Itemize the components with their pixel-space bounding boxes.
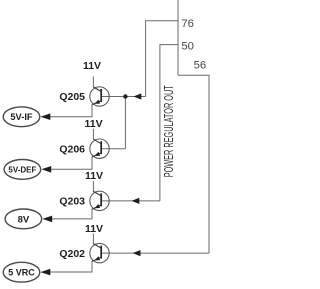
- svg-text:5 VRC: 5 VRC: [8, 268, 35, 278]
- svg-text:56: 56: [194, 60, 207, 72]
- svg-text:Q202: Q202: [59, 248, 85, 260]
- svg-text:11V: 11V: [85, 170, 103, 182]
- svg-text:76: 76: [181, 18, 194, 30]
- svg-text:Q206: Q206: [59, 143, 85, 155]
- svg-text:8V: 8V: [18, 214, 30, 225]
- svg-text:5V-IF: 5V-IF: [10, 112, 33, 122]
- svg-text:50: 50: [181, 41, 194, 53]
- svg-text:POWER REGULATOR OUT: POWER REGULATOR OUT: [161, 85, 176, 177]
- svg-text:Q205: Q205: [59, 91, 85, 103]
- svg-text:5V-DEF: 5V-DEF: [8, 165, 36, 174]
- svg-text:11V: 11V: [85, 223, 103, 235]
- svg-text:11V: 11V: [83, 60, 101, 72]
- svg-text:11V: 11V: [85, 118, 103, 130]
- svg-text:Q203: Q203: [59, 196, 85, 208]
